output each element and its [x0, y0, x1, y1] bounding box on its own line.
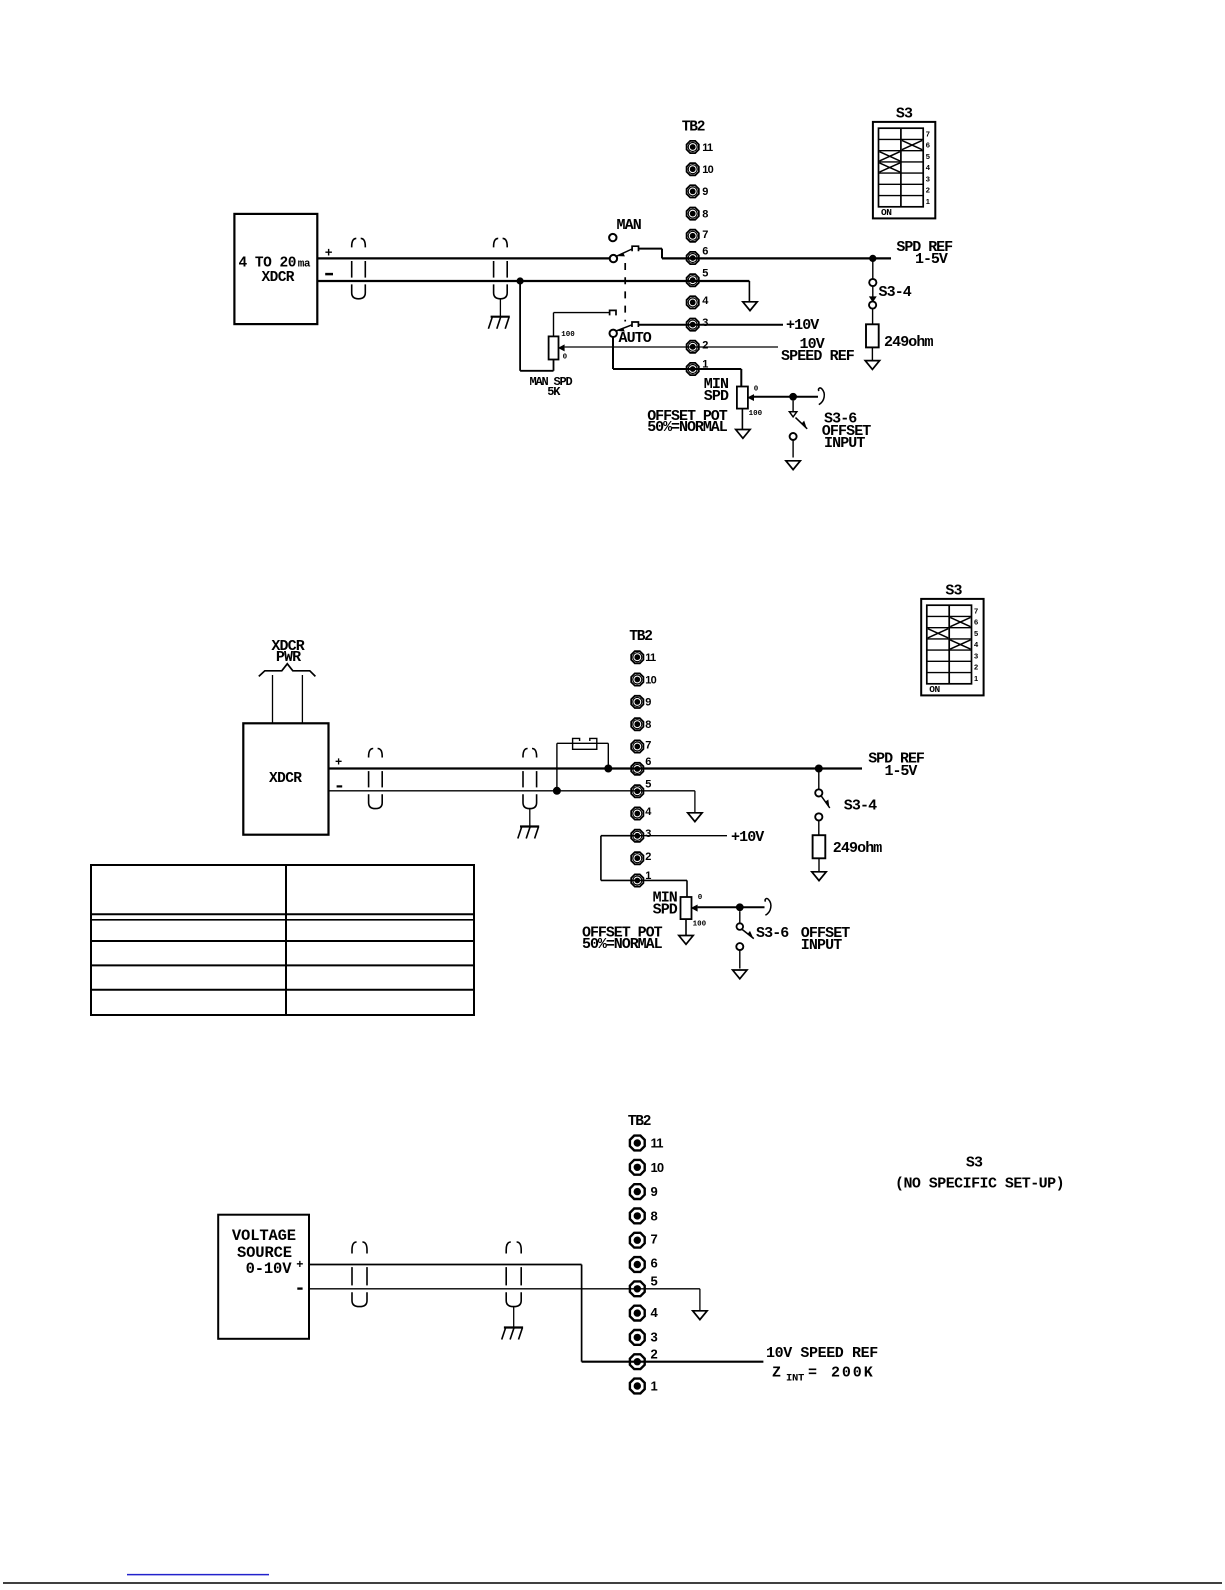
svg-text:5K: 5K	[547, 385, 561, 399]
shield drain wire (bottom)	[513, 1307, 515, 1328]
terminal TB2-1 (bottom diagram)	[630, 1379, 658, 1394]
svg-text:10: 10	[645, 674, 656, 686]
switch S3-6 (middle diagram)	[736, 911, 754, 968]
switch S3-6 (top diagram)	[789, 401, 807, 458]
terminal TB2-3 (middle diagram)	[631, 828, 651, 842]
svg-text:5: 5	[651, 1273, 658, 1288]
wire TB2-3 to +10V (middle)	[637, 835, 727, 837]
current-loop jumper link between TB2-5 and TB2-6	[557, 738, 608, 790]
svg-text:3: 3	[702, 317, 708, 329]
svg-text:7: 7	[651, 1231, 658, 1246]
terminal TB2-2 (middle diagram)	[631, 851, 651, 865]
svg-text:7: 7	[926, 129, 930, 138]
svg-text:11: 11	[651, 1136, 664, 1151]
svg-text:S3: S3	[966, 1155, 983, 1172]
terminal TB2-3 (top diagram)	[687, 317, 709, 331]
svg-text:1: 1	[926, 197, 930, 206]
svg-text:XDCR: XDCR	[269, 771, 302, 787]
junction offset input (top diagram)	[789, 393, 797, 401]
terminal TB2-7 (bottom diagram)	[630, 1231, 658, 1247]
svg-text:10: 10	[651, 1160, 664, 1175]
svg-text:S3: S3	[945, 583, 962, 600]
svg-text:5: 5	[926, 152, 930, 161]
svg-text:1-5V: 1-5V	[915, 251, 948, 268]
terminal TB2-3 (bottom diagram)	[630, 1329, 658, 1344]
terminal TB2-5 (bottom diagram)	[630, 1273, 658, 1296]
terminal TB2-11 (middle diagram)	[631, 651, 656, 664]
voltage source box 0-10V	[218, 1215, 309, 1339]
terminal TB2-11 (bottom diagram)	[630, 1136, 663, 1151]
svg-text:9: 9	[645, 697, 651, 709]
label XDCR PWR with brace	[259, 638, 316, 676]
wire MIN SPD pot low end to ground (middle)	[685, 919, 687, 935]
svg-text:8: 8	[645, 719, 651, 731]
svg-text:3: 3	[926, 174, 930, 183]
svg-text:+10V: +10V	[731, 829, 764, 846]
svg-text:6: 6	[926, 141, 930, 150]
ground (below 249ohm, top diagram)	[865, 361, 879, 370]
svg-text:S3: S3	[896, 106, 913, 123]
terminal TB2-2 (bottom diagram)	[630, 1346, 658, 1369]
svg-text:100: 100	[561, 331, 575, 339]
svg-text:0: 0	[698, 894, 703, 902]
chassis ground (cable shield, bottom diagram)	[502, 1328, 523, 1340]
svg-text:S3-4: S3-4	[879, 284, 912, 301]
terminal TB2-9 (middle diagram)	[631, 696, 651, 709]
wire MIN SPD pot low end to ground	[741, 409, 743, 430]
junction XDCR- / jumper (middle)	[553, 787, 561, 795]
svg-text:+10V: +10V	[786, 317, 819, 334]
wire XDCR- junction down to MAN SPD pot low end	[520, 281, 553, 371]
svg-text:6: 6	[645, 756, 651, 768]
junction on XDCR- wire	[517, 277, 524, 284]
chassis ground (cable shield, top diagram)	[488, 317, 509, 329]
pin label - (XDCR)	[325, 273, 333, 276]
svg-text:7: 7	[702, 229, 708, 241]
transducer box XDCR (middle diagram)	[243, 723, 328, 834]
potentiometer MAN SPD 5K	[530, 331, 576, 399]
svg-text:2: 2	[702, 339, 708, 351]
terminal TB2-6 (bottom diagram)	[630, 1256, 658, 1272]
svg-text:3: 3	[974, 651, 978, 660]
svg-text:1: 1	[651, 1379, 658, 1394]
svg-text:ON: ON	[929, 684, 940, 695]
XDCR power feed wires	[273, 675, 303, 723]
svg-text:2: 2	[645, 851, 651, 863]
ground (S3-6, top diagram)	[786, 461, 800, 470]
svg-text:100: 100	[749, 410, 763, 418]
terminal TB2-10 (top diagram)	[687, 163, 714, 176]
terminal TB2-2 (top diagram)	[687, 339, 709, 353]
terminal TB2-7 (middle diagram)	[631, 740, 651, 753]
shield drain wire (middle)	[529, 809, 531, 827]
svg-text:5: 5	[645, 779, 651, 791]
ground (TB2-5, bottom diagram)	[693, 1311, 707, 1320]
svg-text:VOLTAGE: VOLTAGE	[232, 1227, 296, 1245]
switch MAN (upper pole)	[609, 217, 642, 263]
terminal TB2-4 (top diagram)	[687, 295, 710, 309]
pin label + (XDCR middle)	[335, 755, 342, 769]
shielded cable symbol (left, middle diagram)	[369, 749, 383, 809]
switch AUTO (lower pole)	[610, 322, 652, 347]
label S3-6 OFFSET INPUT (middle diagram)	[756, 925, 850, 954]
svg-text:SPD: SPD	[653, 902, 678, 919]
potentiometer MIN SPD (middle diagram)	[653, 890, 707, 929]
svg-text:2: 2	[926, 186, 930, 195]
svg-text:200K: 200K	[831, 1365, 875, 1382]
wire MAN contact to TB2-6 (SPD REF bus)	[639, 249, 892, 259]
terminal TB2-5 (top diagram)	[687, 268, 709, 287]
footer rule	[3, 1582, 1222, 1584]
terminal TB2-1 (middle diagram)	[631, 870, 651, 887]
svg-text:3: 3	[645, 828, 651, 840]
label S3 no specific set-up	[895, 1155, 1064, 1193]
wire XDCR- through TB2-5 (middle)	[329, 790, 695, 792]
terminal TB2-8 (middle diagram)	[631, 718, 651, 731]
svg-text:6: 6	[974, 618, 978, 627]
svg-text:0: 0	[563, 354, 568, 362]
terminal block TB2 label (top diagram)	[682, 120, 705, 136]
svg-text:+: +	[296, 1258, 303, 1272]
svg-text:5: 5	[974, 629, 978, 638]
net label SPD REF 1-5V	[896, 239, 953, 268]
svg-text:+: +	[335, 755, 342, 769]
net label +10V (middle diagram)	[731, 829, 764, 846]
wire XDCR+ through TB2-6 (SPD REF bus, middle)	[329, 767, 863, 769]
wire AUTO common down to TB2-1	[613, 337, 741, 369]
svg-text:1-5V: 1-5V	[885, 763, 918, 780]
terminal TB2-9 (top diagram)	[687, 185, 709, 198]
svg-text:INPUT: INPUT	[824, 435, 865, 452]
svg-text:AUTO: AUTO	[619, 330, 652, 347]
svg-text:10: 10	[702, 164, 713, 176]
svg-text:SPEED REF: SPEED REF	[781, 348, 855, 365]
wire TB2-1 to MIN SPD pot (middle)	[686, 880, 688, 897]
svg-text:11: 11	[702, 142, 713, 154]
ground (MIN SPD pot, top diagram)	[736, 430, 750, 439]
switch S3-4 (middle diagram)	[815, 769, 877, 836]
svg-text:6: 6	[651, 1256, 658, 1271]
resistor 249ohm (middle diagram)	[813, 835, 883, 872]
svg-text:7: 7	[974, 606, 978, 615]
pin label - (voltage source)	[297, 1287, 302, 1289]
svg-text:=: =	[808, 1365, 817, 1382]
svg-text:MAN: MAN	[617, 217, 642, 234]
label S3-6 OFFSET INPUT (top diagram)	[822, 411, 872, 453]
terminal TB2-8 (bottom diagram)	[630, 1209, 658, 1224]
junction SPD REF / S3-4	[869, 255, 876, 262]
svg-text:50%=NORMAL: 50%=NORMAL	[582, 936, 663, 953]
terminal TB2-8 (top diagram)	[687, 208, 709, 221]
wire MAN SPD pot high end to MAN contact cup	[554, 313, 610, 337]
svg-text:8: 8	[702, 208, 708, 220]
wire MIN SPD wiper to offset input	[754, 396, 818, 398]
svg-text:TB2: TB2	[628, 1114, 651, 1130]
DIP switch S3 (top diagram) with settings	[873, 106, 935, 219]
wire AUTO contact to TB2-3 / +10V	[638, 324, 783, 326]
wire TB2-1 to MIN SPD pot high end	[740, 369, 742, 387]
svg-text:100: 100	[693, 921, 707, 929]
terminal TB2-6 (middle diagram)	[631, 756, 651, 775]
svg-text:0: 0	[754, 385, 759, 393]
ground (MIN SPD pot, middle diagram)	[679, 936, 693, 945]
svg-text:9: 9	[651, 1184, 658, 1199]
svg-text:PWR: PWR	[276, 649, 301, 666]
label OFFSET POT 50%=NORMAL (top diagram)	[647, 408, 728, 436]
resistor 249ohm (top diagram)	[866, 324, 934, 360]
wire source- through TB2-5	[309, 1288, 700, 1290]
svg-text:INT: INT	[786, 1373, 804, 1385]
wire XDCR- through TB2-5	[317, 280, 749, 282]
svg-text:TB2: TB2	[682, 120, 705, 136]
terminal TB2-4 (bottom diagram)	[630, 1305, 659, 1320]
blank configuration table	[91, 865, 474, 1015]
DIP switch S3 (middle diagram) with settings	[921, 583, 983, 696]
svg-text:INPUT: INPUT	[801, 937, 842, 954]
svg-text:0-10V: 0-10V	[246, 1260, 293, 1278]
svg-text:3: 3	[651, 1329, 658, 1344]
svg-text:50%=NORMAL: 50%=NORMAL	[647, 419, 728, 436]
wire XDCR+ to MAN switch common	[317, 257, 609, 259]
svg-text:Z: Z	[772, 1365, 781, 1382]
net label SPD REF 1-5V (middle)	[868, 751, 925, 781]
terminal TB2-10 (bottom diagram)	[630, 1160, 664, 1175]
switch S3-4 (top diagram)	[869, 258, 912, 324]
offset input hook (middle)	[765, 899, 771, 916]
terminal TB2-11 (top diagram)	[687, 141, 713, 154]
wire source+ to TB2-2	[309, 1265, 763, 1362]
ground (below 249ohm, middle diagram)	[812, 872, 826, 881]
chassis ground (cable shield, middle diagram)	[518, 827, 539, 839]
shielded cable symbol (left, bottom diagram)	[352, 1242, 367, 1307]
svg-text:ON: ON	[881, 207, 892, 218]
label OFFSET POT 50%=NORMAL (middle diagram)	[582, 925, 663, 954]
net label 10V SPEED REF / Zint = 200K	[766, 1345, 878, 1385]
svg-text:11: 11	[645, 652, 656, 664]
ground (TB2-5, top diagram)	[743, 302, 757, 311]
terminal TB2-5 (middle diagram)	[631, 779, 651, 798]
shielded cable symbol with shield drain (right, middle diagram)	[523, 749, 537, 809]
jumper wire TB2-3 to TB2-1 (left loop)	[601, 836, 687, 881]
terminal TB2-4 (middle diagram)	[631, 806, 652, 820]
footer hyperlink underline	[127, 1574, 269, 1576]
pin label + (XDCR)	[325, 245, 333, 260]
svg-text:8: 8	[651, 1209, 658, 1224]
terminal TB2-10 (middle diagram)	[631, 673, 656, 686]
net label +10V (top diagram)	[786, 317, 819, 334]
svg-text:TB2: TB2	[629, 629, 652, 645]
svg-text:2: 2	[974, 663, 978, 672]
shielded cable symbol (left, top diagram)	[352, 238, 366, 298]
terminal block TB2 label (bottom diagram)	[628, 1114, 651, 1130]
junction SPD REF / S3-4 (middle)	[815, 765, 823, 773]
wire MIN SPD wiper to offset input (middle)	[698, 906, 765, 908]
net label 10V SPEED REF (top diagram)	[781, 336, 855, 365]
junction offset input (middle)	[736, 903, 744, 911]
svg-text:S3-6: S3-6	[756, 925, 789, 942]
transducer box 4 TO 20ma XDCR	[234, 214, 317, 324]
terminal TB2-7 (top diagram)	[687, 229, 709, 242]
svg-text:5: 5	[702, 268, 708, 280]
wire MAN SPD wiper to TB2-2 (10V SPEED REF)	[565, 346, 778, 348]
svg-text:2: 2	[651, 1346, 658, 1361]
shielded cable symbol with shield drain (right, bottom diagram)	[506, 1242, 521, 1307]
mechanical link MAN/AUTO (dashed)	[624, 263, 626, 322]
svg-text:SPD: SPD	[704, 388, 729, 405]
svg-text:1: 1	[974, 674, 978, 683]
terminal TB2-9 (bottom diagram)	[630, 1184, 658, 1199]
shield drain wire	[499, 299, 501, 317]
svg-text:S3-4: S3-4	[844, 798, 877, 815]
ground (TB2-5, middle diagram)	[688, 813, 702, 822]
svg-text:9: 9	[702, 186, 708, 198]
svg-text:249ohm: 249ohm	[833, 840, 883, 857]
svg-text:XDCR: XDCR	[262, 270, 295, 286]
wire TB2-5 to ground arrow (bottom)	[699, 1289, 701, 1311]
ground (S3-6, middle diagram)	[733, 970, 747, 979]
shielded cable symbol with shield drain (right, top diagram)	[494, 238, 508, 298]
contact cup (MAN SPD wiper feed)	[610, 310, 616, 315]
svg-text:6: 6	[702, 245, 708, 257]
terminal TB2-6 (top diagram)	[687, 245, 709, 264]
svg-text:7: 7	[645, 740, 651, 752]
wire TB2-5 to ground arrow (middle)	[694, 791, 696, 813]
svg-text:10V SPEED REF: 10V SPEED REF	[766, 1345, 878, 1362]
potentiometer MIN SPD (top diagram)	[704, 376, 763, 418]
pin label + (voltage source)	[296, 1258, 303, 1272]
terminal TB2-1 (top diagram)	[687, 359, 709, 376]
terminal block TB2 label (middle diagram)	[629, 629, 652, 645]
junction XDCR+ / jumper (middle)	[604, 765, 612, 773]
svg-text:249ohm: 249ohm	[884, 334, 934, 351]
pin label - (XDCR middle)	[337, 785, 343, 787]
offset input hook (top diagram)	[819, 388, 825, 405]
wire TB2-5 to ground arrow	[748, 281, 750, 302]
svg-text:(NO SPECIFIC SET-UP): (NO SPECIFIC SET-UP)	[895, 1176, 1064, 1193]
svg-text:ma: ma	[298, 259, 311, 271]
